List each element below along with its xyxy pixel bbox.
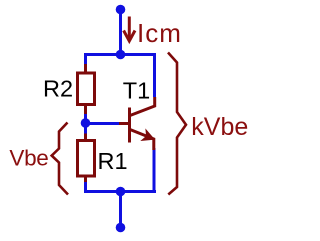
node: top terminal	[116, 5, 126, 15]
wire: stub above left junction	[84, 114, 87, 123]
brace right (kVbe)	[168, 53, 186, 195]
wire: left vertical to R2	[84, 53, 87, 67]
wire: right vertical (collector feed)	[153, 53, 156, 97]
emitter lead	[130, 130, 154, 151]
wire: base wire	[86, 122, 121, 125]
current arrow Icm	[124, 17, 135, 42]
collector lead	[130, 97, 155, 116]
transistor T1	[119, 97, 155, 150]
base lead	[119, 122, 130, 125]
node: bottom terminal	[116, 223, 126, 233]
svg-text:R2: R2	[43, 75, 73, 101]
resistor R1	[78, 134, 95, 185]
brace left (Vbe)	[52, 123, 68, 195]
wire: left vertical to bottom	[84, 182, 87, 193]
node: top junction	[116, 50, 126, 60]
node: bottom junction	[116, 187, 126, 197]
base bar	[128, 108, 131, 143]
svg-text:Vbe: Vbe	[9, 146, 48, 171]
svg-text:kVbe: kVbe	[191, 113, 248, 141]
svg-text:R1: R1	[98, 148, 128, 174]
resistor R2	[78, 64, 95, 115]
wire: top vertical feed	[119, 10, 122, 55]
wire: top horizontal	[84, 53, 156, 56]
svg-text:T1: T1	[123, 78, 150, 104]
wire: bottom vertical feed	[119, 192, 122, 228]
node: left junction	[81, 118, 91, 128]
emitter arrowhead	[142, 130, 154, 140]
svg-text:Icm: Icm	[137, 18, 182, 48]
wire: stub below left junction	[84, 123, 87, 134]
wire: emitter vertical (to bottom rail)	[153, 148, 156, 193]
wire: bottom horizontal	[84, 190, 156, 193]
